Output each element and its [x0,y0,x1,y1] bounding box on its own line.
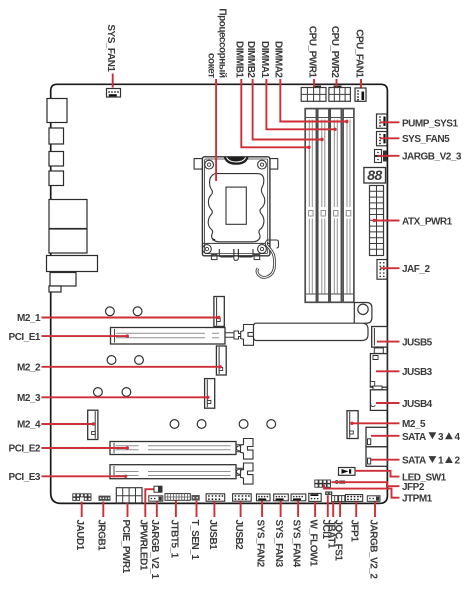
svg-text:SATA: SATA [402,432,426,443]
debug LED display [364,167,386,183]
ATX power connector ATX_PWR1 [370,186,384,256]
wire CPU_PWR2 [336,79,338,87]
wire JTBT5_1 [175,501,177,518]
socket lever [257,241,274,277]
svg-text:M2_3: M2_3 [17,393,41,404]
wire JAF_2 [380,267,400,269]
ILM bottom bar [202,242,270,244]
wire CPU_PWR1 [313,79,315,87]
svg-text:CPU_PWR2: CPU_PWR2 [329,26,340,79]
wire JUSB5 [377,341,400,343]
bottom header JRGB1 [99,496,111,501]
rear IO port 6 [49,229,87,253]
wire JPWRLED1 [145,489,153,517]
node M2_4 end [92,422,95,425]
wire JTPM1 [324,485,400,498]
svg-text:M2_5: M2_5 [402,419,426,430]
wire DIMMA1 [266,79,334,129]
svg-text:DIMMB2: DIMMB2 [245,41,256,78]
wire PCI_E2 [42,447,128,449]
wire JUSB3 [376,370,400,372]
M.2 connector M2_2 [216,346,226,375]
svg-text:88: 88 [367,167,382,183]
wire M2_2 [42,366,221,368]
svg-text:Процессорный: Процессорный [216,8,227,77]
svg-text:сокет: сокет [205,53,216,78]
mounting hole [122,388,131,397]
svg-text:JUSB4: JUSB4 [402,399,433,410]
USB connector JUSB4 [370,390,387,411]
svg-text:SYS_FAN4: SYS_FAN4 [291,520,302,568]
wire SYS_FAN3 [280,501,282,517]
wire T_SEN_1 [196,501,198,517]
M.2 heatsink strip [254,303,372,341]
socket screw top-left [205,160,214,169]
pin1 marker [213,238,216,241]
svg-text:DIMMA1: DIMMA1 [259,41,270,78]
wire JARGB_V2_3 [378,155,400,157]
wire JFP1 [355,502,357,517]
svg-text:JPWRLED1: JPWRLED1 [138,520,149,571]
socket outer frame [202,157,270,256]
node PCI_E1 end [126,334,129,337]
connector next to JFP2 [335,481,345,484]
wire PUMP_SYS1 [380,121,400,123]
wire DIMMB2 [253,79,322,140]
M.2 connector M2_5 [347,411,358,439]
PCI_E3 latch block [241,463,254,484]
node ATX_PWR1 start [373,219,376,222]
wire W_FLOW1 [314,502,316,517]
wire PCI_E1 [42,335,128,337]
svg-text:M2_4: M2_4 [17,420,41,431]
node M2_1 end [217,316,220,319]
DIMM slot DIMMA1 [330,109,341,303]
header JTBT5_1 [165,494,190,501]
wire ATX_PWR1 [374,220,400,222]
wire M2_1 [42,317,219,319]
socket screw bottom-right [258,245,267,254]
rear IO port 8 stub [49,286,61,292]
rear IO port 5 [49,200,87,229]
header JARGB_V2_1 [149,496,163,501]
svg-text:JTPM1: JTPM1 [402,494,433,505]
node M2_3 end [206,396,209,399]
wire JRGB1 [102,502,104,518]
fan header SYS_FAN4 [291,494,306,501]
svg-text:PCI_E3: PCI_E3 [9,472,41,483]
wire SYS_FAN1 [112,74,114,88]
fan header PUMP_SYS1 [377,114,387,128]
svg-text:JAF_2: JAF_2 [402,264,430,275]
PCI_E2 latch bowtie [236,445,244,452]
wire SATA 1-2 [371,459,400,461]
ILM tab right [254,255,260,260]
svg-text:JARGB_V2_3: JARGB_V2_3 [402,152,462,163]
socket top mouth [224,157,249,165]
bottom header JAUD1 [73,494,91,501]
svg-text:JUSB3: JUSB3 [402,367,433,378]
svg-text:PCIE_PWR1: PCIE_PWR1 [120,520,131,574]
connector T_SEN_1 [192,495,200,501]
wire PCIE_PWR1 [127,503,129,517]
svg-text:JFP1: JFP1 [349,520,360,543]
wire DIMMB1 [241,79,308,147]
wire SYS_FAN4 [297,501,299,517]
PCI_E1 latch bowtie [225,331,242,339]
socket cover plate wavy [208,174,265,242]
header JARGB_V2_2 [367,496,380,502]
node DIMMA2 end [345,120,348,123]
svg-text:JUSB5: JUSB5 [402,337,433,348]
connector JBAT1 [332,496,338,502]
rear IO port 4 [49,171,64,186]
PCI_E2 latch block [241,439,254,460]
node M2_2 end [219,365,222,368]
svg-text:PCI_E1: PCI_E1 [9,332,41,343]
socket screw bottom-left [203,245,212,254]
fan header CPU_FAN1 [355,88,366,101]
socket left wing [194,159,202,170]
svg-text:DIMMA2: DIMMA2 [273,41,284,78]
switch LED_SW1 [339,468,356,476]
node PCI_E3 end [124,475,127,478]
DIMM slot DIMMB1 [305,109,316,303]
svg-text:JUSB2: JUSB2 [233,520,244,551]
wire JOC_FS1 [339,502,341,517]
svg-text:SYS_FAN1: SYS_FAN1 [105,24,116,72]
wire LED_SW1 [355,471,400,477]
svg-text:M2_2: M2_2 [17,363,41,374]
header JFP2 [315,480,331,487]
connector JCI1 [325,491,332,495]
wire PCI_E3 [42,475,126,477]
wire JAUD1 [81,502,83,518]
ILM center hook [234,249,239,260]
rear IO port 8 [50,273,76,287]
wire CPU_FAN1 [360,79,362,88]
node M2_5 start [350,422,353,425]
wire JUSB4 [376,402,400,404]
USB connector JUSB3 [370,354,387,388]
svg-text:JUSB1: JUSB1 [207,520,218,551]
svg-text:W_FLOW1: W_FLOW1 [308,520,319,567]
svg-text:JAUD1: JAUD1 [74,520,85,551]
wire JCI1 [327,495,329,517]
fan header SYS_FAN5 [377,132,387,146]
node DIMMA1 end [333,128,336,131]
ILM foot left [219,249,234,257]
socket right wing [270,159,278,170]
node DIMMB2 end [320,138,323,141]
fan header SYS_FAN1 [107,89,121,98]
svg-text:SYS_FAN5: SYS_FAN5 [402,134,450,145]
socket screw top-right [258,160,267,169]
header JAF_2 [377,260,387,280]
fan header SYS_FAN2 [257,494,271,501]
wire JFP2 [331,482,399,486]
fan header SYS_FAN3 [274,494,289,501]
svg-text:SATA: SATA [402,456,426,467]
svg-text:ATX_PWR1: ATX_PWR1 [402,217,453,228]
svg-text:SYS_FAN2: SYS_FAN2 [255,520,266,568]
wire JARGB_V2_2 [374,502,376,518]
svg-text:DIMMB1: DIMMB1 [234,41,245,78]
wire JBAT1 [332,502,334,517]
USB connector JUSB5 [372,327,388,348]
CPU center rectangle [226,187,246,224]
svg-text:JARGB_V2_1: JARGB_V2_1 [149,520,160,580]
header JFP1 [345,495,362,502]
wire SATA 3-4 [371,435,400,437]
node PCI_E2 end [126,446,129,449]
wire JUSB1 [213,501,215,517]
ILM foot right [238,249,253,257]
wire JARGB_V2_1 [156,502,158,518]
svg-text:CPU_FAN1: CPU_FAN1 [353,29,364,78]
rear IO port 1 [47,99,67,123]
connector JOC_FS1 [339,496,345,502]
connector JPWRLED1 [154,486,162,492]
strip screw [358,304,368,314]
mounting hole [107,356,116,365]
svg-text:PCI_E2: PCI_E2 [9,444,41,455]
mounting hole [135,356,144,365]
svg-text:JOC_FS1: JOC_FS1 [333,520,344,562]
mounting hole [170,420,179,429]
svg-text:JRGB1: JRGB1 [96,520,107,552]
wire JUSB2 [240,501,242,517]
node DIMMB1 end [307,146,310,149]
wire SYS_FAN5 [380,137,400,139]
mounting hole [133,307,142,316]
wire M2_5 [352,422,400,424]
CPU power connector CPU_PWR2 [329,86,351,102]
M.2 connector M2_1 [214,297,224,327]
wire SYS_FAN2 [261,501,263,517]
svg-text:JARGB_V2_2: JARGB_V2_2 [367,520,378,580]
svg-text:M2_1: M2_1 [17,313,41,324]
svg-text:JTBT5_1: JTBT5_1 [168,520,179,559]
mounting hole [267,420,276,429]
SATA ports 1-2 [366,447,387,467]
wire DIMMA2 [280,79,346,122]
PCI_E1 latch block [241,325,254,346]
PCIe slot PCI_E1 [111,328,226,345]
svg-text:T_SEN_1: T_SEN_1 [189,520,200,561]
power connector PCIE_PWR1 [116,488,142,503]
mounting hole [106,307,115,316]
board outline [51,84,388,503]
svg-text:CPU_PWR1: CPU_PWR1 [306,26,317,79]
USB header JUSB2 [233,494,252,501]
mounting hole [197,420,206,429]
rear IO port 2 [49,128,64,144]
edge tab [374,348,383,354]
mounting hole [94,388,103,397]
CPU socket U1 [194,157,278,278]
rear IO port 7 [47,256,98,272]
wire M2_3 [42,396,208,398]
wire M2_4 [42,423,94,425]
lever latch clip [267,240,279,248]
edge tab [373,386,382,390]
DIMM slot DIMMB2 [318,109,329,303]
PCI_E3 latch bowtie [236,468,244,475]
svg-text:JFP2: JFP2 [402,482,425,493]
svg-text:PUMP_SYS1: PUMP_SYS1 [402,118,458,129]
SATA ports 3-4 [366,427,387,447]
header W_FLOW1 [309,493,321,501]
CPU power connector CPU_PWR1 [301,86,326,102]
M.2 connector M2_3 [205,379,215,409]
header JARGB_V2_3 [375,150,387,163]
wire CPU socket [215,79,217,181]
PCIe slot PCI_E2 [110,442,236,455]
PCIe slot PCI_E3 [110,465,236,479]
M.2 connector M2_4 [88,410,98,439]
ILM tab left [211,255,217,260]
rear IO port 3 [49,152,64,167]
USB header JUSB1 [206,494,225,501]
svg-text:SYS_FAN3: SYS_FAN3 [273,520,284,568]
DIMM slot DIMMA2 [343,109,354,303]
mounting hole [239,420,248,429]
